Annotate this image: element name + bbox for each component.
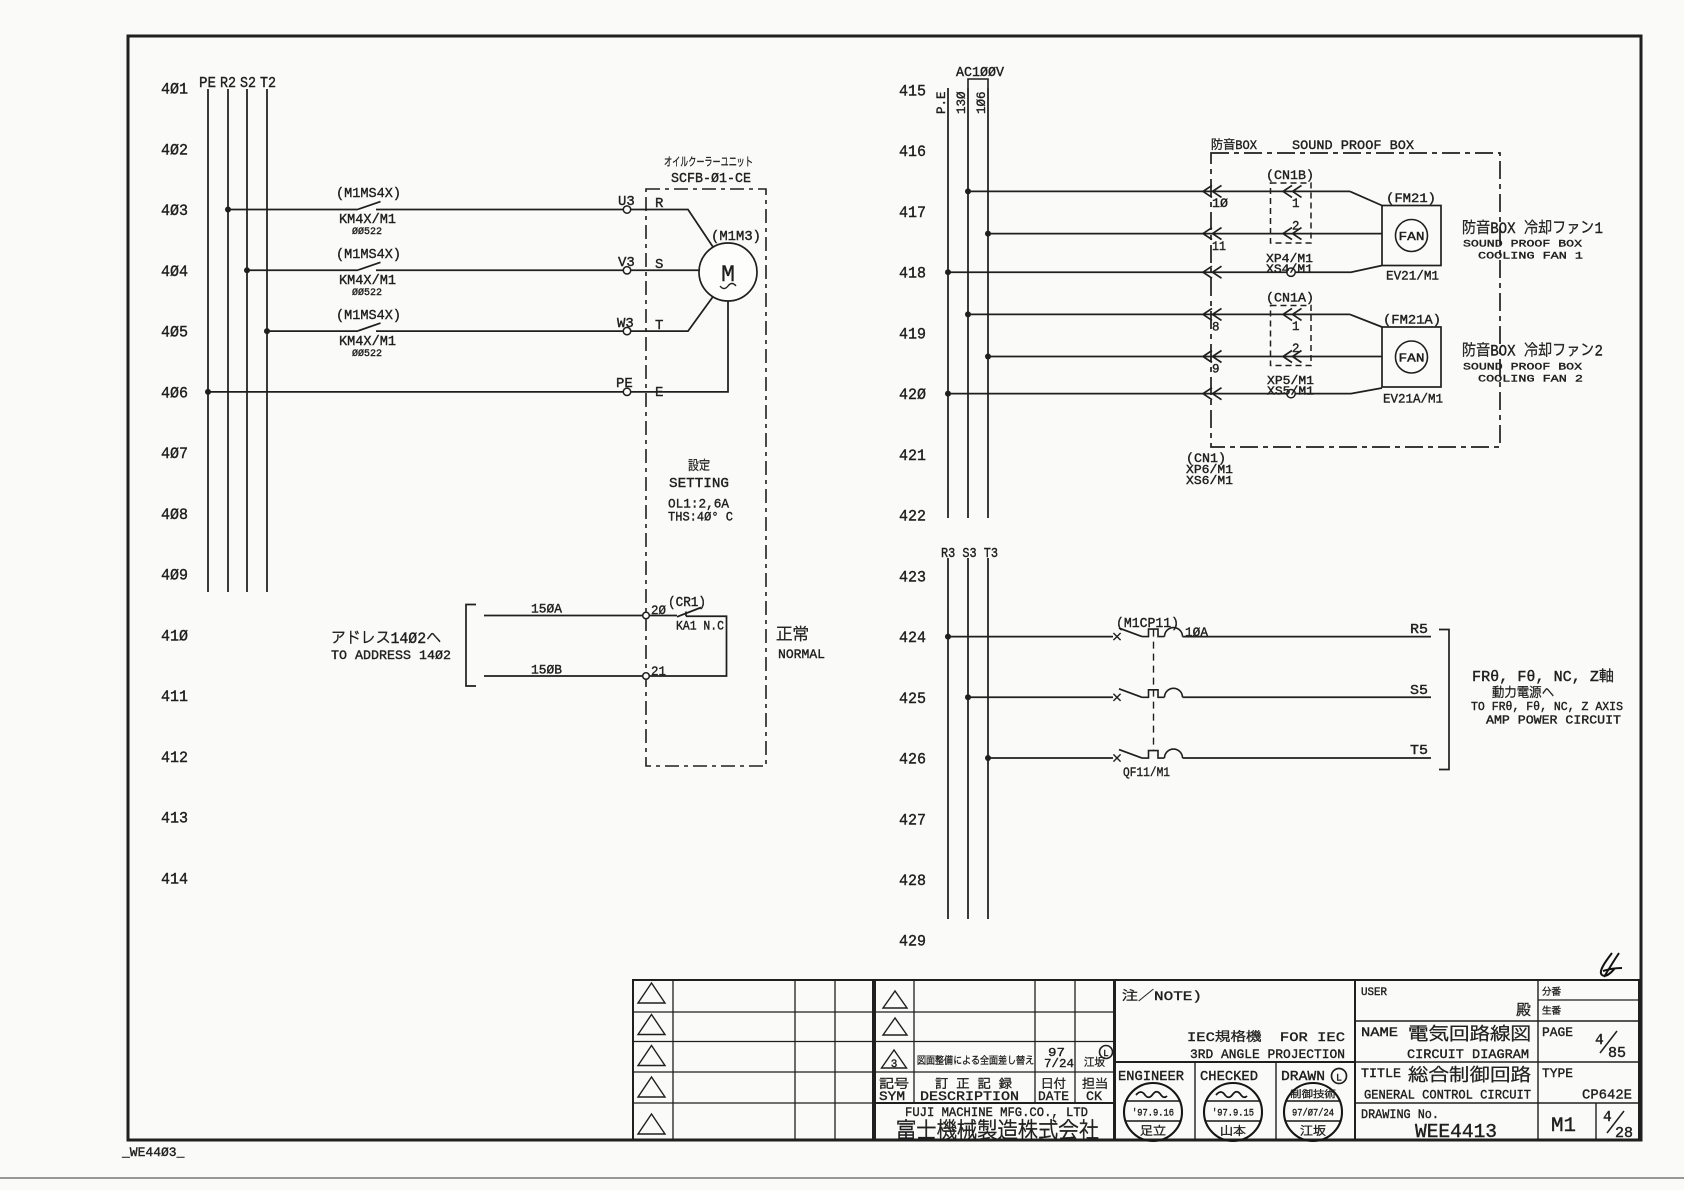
- svg-text:423: 423: [899, 568, 926, 586]
- wire rung left of contact: [267, 330, 358, 332]
- svg-text:ØØ522: ØØ522: [352, 348, 382, 360]
- svg-text:2: 2: [1292, 220, 1300, 234]
- svg-text:421: 421: [899, 447, 926, 465]
- wire U3 to motor: [631, 210, 713, 247]
- svg-text:4Ø5: 4Ø5: [161, 324, 188, 342]
- wire rung right of contact: [376, 209, 623, 211]
- svg-text:8: 8: [1212, 321, 1220, 335]
- node junction on bus: [945, 634, 951, 640]
- svg-text:NAME: NAME: [1361, 1025, 1398, 1040]
- svg-text:L: L: [1103, 1049, 1108, 1059]
- svg-text:R5: R5: [1410, 623, 1428, 638]
- svg-text:COOLING FAN 1: COOLING FAN 1: [1478, 251, 1583, 263]
- svg-text:(CN1B): (CN1B): [1266, 168, 1314, 183]
- svg-text:413: 413: [161, 810, 188, 828]
- svg-text:IEC規格機 FOR IEC: IEC規格機 FOR IEC: [1187, 1030, 1345, 1045]
- svg-text:T2: T2: [260, 76, 276, 92]
- svg-text:2Ø: 2Ø: [651, 603, 666, 618]
- fan FM21 circle: [1396, 220, 1428, 252]
- svg-text:EV21/M1: EV21/M1: [1386, 269, 1439, 284]
- svg-text:416: 416: [899, 143, 926, 161]
- svg-text:PE: PE: [616, 376, 633, 392]
- svg-text:3: 3: [891, 1059, 898, 1071]
- fan FM21A circle: [1396, 341, 1428, 373]
- bus wire 130 vertical: [967, 88, 969, 518]
- motor M1M3 circle: [699, 243, 757, 301]
- svg-text:(M1MS4X): (M1MS4X): [336, 247, 401, 263]
- bus wire T3 vertical: [987, 558, 989, 919]
- svg-text:41Ø: 41Ø: [161, 627, 188, 645]
- svg-text:ØØ522: ØØ522: [352, 287, 382, 299]
- svg-text:42Ø: 42Ø: [899, 386, 926, 404]
- svg-text:428: 428: [899, 872, 926, 890]
- wire V3 to motor: [631, 269, 699, 271]
- svg-text:XS5/M1: XS5/M1: [1267, 385, 1314, 399]
- svg-text:(FM21A): (FM21A): [1383, 313, 1441, 328]
- node junction on bus: [264, 328, 270, 334]
- node junction on bus: [244, 267, 250, 273]
- connector CN1A dashed outline: [1271, 306, 1312, 366]
- checked stamp (Yamamoto): [1204, 1083, 1262, 1141]
- svg-text:KA1 N.C: KA1 N.C: [676, 620, 724, 634]
- svg-text:江坂: 江坂: [1300, 1124, 1326, 1139]
- svg-text:418: 418: [899, 265, 926, 283]
- svg-text:CIRCUIT DIAGRAM: CIRCUIT DIAGRAM: [1407, 1047, 1529, 1062]
- svg-text:4Ø3: 4Ø3: [161, 202, 188, 220]
- svg-text:13Ø: 13Ø: [955, 91, 969, 114]
- terminal U3: [623, 206, 630, 213]
- svg-text:1Ø: 1Ø: [1212, 197, 1229, 211]
- svg-text:M1: M1: [1551, 1115, 1576, 1138]
- svg-text:SETTING: SETTING: [669, 477, 729, 492]
- rung 406 PE earth wire: [205, 389, 211, 395]
- svg-text:図面整備による全面差し替え: 図面整備による全面差し替え: [917, 1055, 1034, 1068]
- drawn stamp (Esaka): [1284, 1083, 1342, 1141]
- svg-text:分番: 分番: [1542, 986, 1561, 999]
- svg-text:28: 28: [1615, 1126, 1633, 1142]
- wire loop 20 to 21: [649, 612, 726, 677]
- svg-text:DATE: DATE: [1038, 1089, 1069, 1104]
- breaker blade: [1119, 689, 1142, 698]
- svg-text:足立: 足立: [1140, 1124, 1166, 1139]
- svg-text:富士機械製造株式会社: 富士機械製造株式会社: [896, 1119, 1099, 1145]
- connector circle XS4: [1287, 268, 1295, 276]
- svg-text:殿: 殿: [1516, 1002, 1531, 1020]
- svg-text:21: 21: [651, 664, 666, 679]
- revision triangles table A: [638, 983, 665, 1003]
- svg-text:7/24: 7/24: [1044, 1057, 1074, 1071]
- breaker linkage dashed line: [1153, 630, 1155, 751]
- svg-text:WEE4413: WEE4413: [1415, 1121, 1497, 1143]
- svg-text:防音BOX 冷却ファン1: 防音BOX 冷却ファン1: [1462, 219, 1603, 238]
- svg-text:FRθ, Fθ, NC, Z軸: FRθ, Fθ, NC, Z軸: [1472, 668, 1614, 686]
- svg-text:電気回路線図: 電気回路線図: [1408, 1024, 1531, 1046]
- svg-text:NORMAL: NORMAL: [778, 647, 825, 662]
- svg-text:DESCRIPTION: DESCRIPTION: [920, 1090, 1019, 1104]
- revision table B frame: [875, 980, 1114, 1140]
- svg-text:総合制御回路: 総合制御回路: [1408, 1065, 1531, 1087]
- svg-text:426: 426: [899, 751, 926, 769]
- breaker blade: [1119, 628, 1142, 637]
- terminal 20: [643, 612, 650, 619]
- svg-text:(M1M3): (M1M3): [711, 229, 761, 245]
- svg-text:427: 427: [899, 811, 926, 829]
- svg-text:AMP POWER CIRCUIT: AMP POWER CIRCUIT: [1486, 714, 1621, 728]
- wire 150A: [484, 615, 643, 617]
- svg-text:425: 425: [899, 690, 926, 708]
- svg-text:CK: CK: [1086, 1089, 1102, 1104]
- svg-text:4Ø1: 4Ø1: [161, 81, 188, 99]
- sound proof box enclosure (dash-dot): [1211, 153, 1500, 447]
- approved circle L mark: [1100, 1046, 1113, 1059]
- svg-text:_WE44Ø3_: _WE44Ø3_: [121, 1145, 185, 1160]
- svg-text:4: 4: [1603, 1110, 1612, 1126]
- wire to output: [1183, 757, 1432, 759]
- svg-text:TO FRθ, Fθ, NC, Z AXIS: TO FRθ, Fθ, NC, Z AXIS: [1471, 700, 1623, 714]
- svg-text:CP642E: CP642E: [1582, 1088, 1632, 1104]
- svg-text:'97.9.16: '97.9.16: [1132, 1108, 1174, 1120]
- wire 8 (fan2 line): [965, 311, 971, 317]
- node junction on bus: [965, 694, 971, 700]
- wire 10 (fan1 line): [965, 188, 971, 194]
- svg-text:424: 424: [899, 629, 926, 647]
- signature box frame: [1115, 1062, 1355, 1140]
- svg-text:W3: W3: [617, 316, 634, 332]
- contactor KM4X/M1 blade: [358, 202, 381, 210]
- bus wire R2 vertical: [227, 89, 229, 592]
- svg-text:3RD ANGLE PROJECTION: 3RD ANGLE PROJECTION: [1190, 1047, 1345, 1062]
- terminal 21: [643, 673, 650, 680]
- svg-text:411: 411: [161, 688, 188, 706]
- revision table A frame: [633, 980, 873, 1140]
- node junction on bus: [225, 207, 231, 213]
- drawing info block frame: [1355, 980, 1639, 1140]
- bus wire P.E vertical (right): [947, 88, 949, 518]
- svg-text:4: 4: [1595, 1033, 1604, 1049]
- svg-text:4Ø2: 4Ø2: [161, 141, 188, 159]
- bunban / seiban cells: [1538, 999, 1639, 1001]
- svg-text:正常: 正常: [776, 625, 809, 646]
- svg-text:415: 415: [899, 83, 926, 101]
- svg-text:4Ø6: 4Ø6: [161, 384, 188, 402]
- svg-text:1Ø6: 1Ø6: [975, 91, 989, 114]
- svg-text:制御技術: 制御技術: [1290, 1089, 1336, 1102]
- engineer stamp (Adachi): [1124, 1083, 1182, 1141]
- svg-text:9: 9: [1212, 363, 1220, 377]
- svg-text:4Ø7: 4Ø7: [161, 445, 188, 463]
- svg-text:COOLING FAN 2: COOLING FAN 2: [1478, 374, 1583, 386]
- breaker blade: [1119, 750, 1142, 759]
- output bracket: [1439, 630, 1449, 770]
- svg-text:USER: USER: [1361, 987, 1387, 999]
- svg-text:P.E: P.E: [935, 91, 949, 114]
- contactor KM4X/M1 blade: [358, 262, 381, 270]
- svg-text:1: 1: [1292, 320, 1300, 334]
- breaker contact x-mark: [1113, 694, 1120, 701]
- breaker contact x-mark: [1113, 633, 1120, 640]
- svg-text:設定: 設定: [688, 458, 710, 475]
- svg-text:FAN: FAN: [1399, 353, 1425, 366]
- svg-text:4Ø4: 4Ø4: [161, 263, 188, 281]
- svg-text:'97.9.15: '97.9.15: [1212, 1108, 1254, 1120]
- fan motor FM21A box: [1382, 327, 1441, 387]
- svg-text:GENERAL CONTROL CIRCUIT: GENERAL CONTROL CIRCUIT: [1364, 1089, 1531, 1103]
- svg-text:4Ø8: 4Ø8: [161, 506, 188, 524]
- wire rung right of contact: [376, 330, 623, 332]
- wire to breaker pole: [988, 757, 1113, 759]
- bus wire S3 vertical: [967, 558, 969, 919]
- svg-text:L: L: [1336, 1074, 1342, 1085]
- svg-text:419: 419: [899, 325, 926, 343]
- revision triangles table B: [883, 991, 907, 1008]
- svg-text:SOUND PROOF BOX: SOUND PROOF BOX: [1463, 239, 1583, 251]
- svg-text:U3: U3: [618, 194, 635, 210]
- svg-text:TITLE: TITLE: [1361, 1066, 1401, 1081]
- svg-text:11: 11: [1212, 240, 1226, 254]
- bus wire 106 vertical: [987, 88, 989, 518]
- wire to breaker pole: [948, 636, 1113, 638]
- svg-text:V3: V3: [618, 255, 635, 271]
- oil cooler unit enclosure SCFB-01-CE (dash-dot box): [646, 189, 766, 766]
- node junction on bus: [985, 755, 991, 761]
- svg-text:422: 422: [899, 508, 926, 526]
- wire 150B: [484, 675, 643, 677]
- breaker latch notch: [1142, 751, 1165, 759]
- wire PE row 420 (fan2 earth): [945, 391, 951, 397]
- svg-text:ØØ522: ØØ522: [352, 226, 382, 238]
- wire to output: [1183, 696, 1432, 698]
- svg-text:生番: 生番: [1542, 1005, 1561, 1018]
- bus wire PE vertical: [207, 89, 209, 592]
- svg-text:T5: T5: [1410, 744, 1428, 759]
- svg-text:FUJI MACHINE MFG.CO., LTD: FUJI MACHINE MFG.CO., LTD: [905, 1105, 1088, 1120]
- wire 11 (fan1 return): [985, 231, 991, 237]
- breaker contact x-mark: [1113, 754, 1120, 761]
- svg-text:412: 412: [161, 749, 188, 767]
- thermal element half-circle: [1165, 688, 1183, 697]
- svg-text:XS6/M1: XS6/M1: [1186, 474, 1233, 488]
- svg-text:R3 S3 T3: R3 S3 T3: [941, 547, 998, 562]
- svg-text:414: 414: [161, 871, 188, 889]
- wire rung left of contact: [247, 269, 358, 271]
- svg-text:429: 429: [899, 933, 926, 951]
- svg-text:防音BOX: 防音BOX: [1211, 138, 1257, 153]
- svg-text:(FM21): (FM21): [1386, 191, 1436, 206]
- svg-text:15ØA: 15ØA: [531, 602, 562, 617]
- wire PE row 418 (fan1 earth): [945, 269, 951, 275]
- svg-text:DRAWING No.: DRAWING No.: [1361, 1107, 1439, 1122]
- svg-text:江坂: 江坂: [1084, 1056, 1105, 1070]
- terminal W3: [623, 327, 630, 334]
- wire rung right of contact: [376, 269, 623, 271]
- bus wire T2 vertical: [266, 89, 268, 592]
- breaker latch notch: [1142, 690, 1165, 698]
- svg-text:SYM: SYM: [879, 1089, 905, 1104]
- svg-text:E: E: [655, 385, 663, 401]
- svg-text:S5: S5: [1410, 684, 1428, 699]
- svg-text:EV21A/M1: EV21A/M1: [1383, 392, 1443, 407]
- sheet cells M1 and 4/28: [1595, 1103, 1597, 1140]
- bracket for external wires: [466, 605, 476, 687]
- svg-text:1: 1: [1292, 197, 1300, 211]
- svg-text:15ØB: 15ØB: [531, 663, 562, 678]
- svg-text:(CR1): (CR1): [668, 596, 706, 611]
- contactor KM4X/M1 blade: [358, 323, 381, 331]
- scanner edge artifact line at bottom: [0, 1177, 1684, 1179]
- note box frame: [1115, 980, 1355, 1062]
- wire rung left of contact: [228, 209, 358, 211]
- svg-text:2: 2: [1292, 342, 1300, 356]
- svg-text:TYPE: TYPE: [1542, 1067, 1573, 1081]
- svg-text:85: 85: [1608, 1046, 1626, 1062]
- fan motor FM21 box: [1382, 206, 1441, 266]
- svg-text:注／NOTE): 注／NOTE): [1122, 989, 1202, 1004]
- svg-text:TO ADDRESS 14Ø2: TO ADDRESS 14Ø2: [331, 648, 451, 663]
- svg-text:(M1MS4X): (M1MS4X): [336, 308, 401, 324]
- bus wire S2 vertical: [246, 89, 248, 592]
- svg-text:PAGE: PAGE: [1542, 1026, 1573, 1040]
- breaker latch notch: [1142, 629, 1165, 637]
- wire to breaker pole: [968, 696, 1113, 698]
- svg-text:(CN1A): (CN1A): [1266, 291, 1314, 306]
- svg-text:(M1CP11): (M1CP11): [1116, 617, 1179, 632]
- svg-text:THS:4Ø° C: THS:4Ø° C: [668, 510, 733, 525]
- thermal element half-circle: [1165, 628, 1183, 637]
- wire to output: [1183, 636, 1432, 638]
- bus wire R3 vertical: [947, 558, 949, 919]
- svg-text:97/Ø7/24: 97/Ø7/24: [1292, 1108, 1334, 1120]
- relay contact KA1 N.C blade: [677, 608, 701, 617]
- wire W3 to motor: [631, 297, 713, 331]
- svg-text:417: 417: [899, 204, 926, 222]
- svg-text:アドレス14Ø2へ: アドレス14Ø2へ: [331, 630, 441, 648]
- wire 9 (fan2 return): [985, 354, 991, 360]
- terminal PE: [623, 388, 630, 395]
- svg-text:SOUND PROOF BOX: SOUND PROOF BOX: [1463, 362, 1583, 374]
- svg-text:1ØA: 1ØA: [1185, 626, 1208, 640]
- svg-text:4Ø9: 4Ø9: [161, 567, 188, 585]
- circled L after DRAWN: [1332, 1069, 1347, 1084]
- svg-text:防音BOX 冷却ファン2: 防音BOX 冷却ファン2: [1462, 342, 1603, 361]
- svg-text:S2: S2: [240, 76, 256, 92]
- terminal V3: [623, 267, 630, 274]
- wire PE to motor frame: [631, 301, 728, 392]
- svg-text:XS4/M1: XS4/M1: [1266, 263, 1313, 277]
- svg-text:山本: 山本: [1220, 1124, 1246, 1139]
- svg-text:SCFB-Ø1-CE: SCFB-Ø1-CE: [671, 172, 751, 187]
- thermal element half-circle: [1165, 749, 1183, 758]
- handwritten check mark 4: [1601, 953, 1622, 977]
- connector circle XS5: [1287, 389, 1295, 397]
- svg-text:SOUND PROOF BOX: SOUND PROOF BOX: [1292, 138, 1414, 153]
- svg-text:FAN: FAN: [1399, 231, 1425, 244]
- svg-text:(M1MS4X): (M1MS4X): [336, 186, 401, 202]
- svg-text:オイルクーラーユニット: オイルクーラーユニット: [664, 156, 753, 170]
- svg-text:QF11/M1: QF11/M1: [1123, 765, 1170, 780]
- connector CN1B dashed outline: [1271, 183, 1312, 243]
- AC100V bracket: [968, 79, 988, 88]
